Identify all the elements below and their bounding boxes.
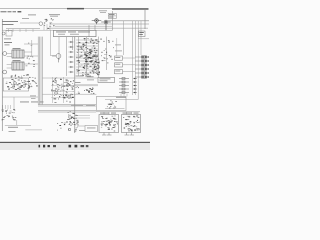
driver column links — [51, 86, 74, 98]
input stubs — [9, 29, 34, 32]
K1 ground stubs — [102, 133, 112, 136]
right text labels — [115, 45, 122, 52]
power unit cluster A3 — [107, 100, 117, 108]
wire pair y84.8 — [74, 85, 98, 86]
transistor ring T1 — [54, 80, 57, 83]
wire drop x74.8 — [74, 37, 76, 133]
bottom-left label — [8, 127, 18, 132]
top-left sub-circuit cluster — [44, 18, 55, 28]
wire drop x112.5 — [112, 11, 114, 30]
connector pin wires — [59, 37, 107, 78]
transistor ring T9 — [23, 85, 26, 88]
wire y126 — [78, 125, 86, 127]
transistor ring T6 — [70, 123, 73, 126]
connector CN1 — [12, 48, 24, 58]
wire drop x89 — [88, 25, 90, 37]
sheet left border — [1, 19, 3, 131]
logic box U2 — [98, 77, 115, 82]
driver columns cluster Q4-Q9 — [51, 77, 74, 102]
transistor ring T7 — [68, 128, 71, 131]
connector strip CN3 — [53, 30, 96, 36]
wire rows y115-118 — [76, 116, 90, 119]
transistor ring T8 — [14, 82, 17, 85]
bottom-left cluster A4 — [2, 109, 17, 120]
wire drop x14 — [13, 97, 15, 109]
header right thick bar — [112, 8, 149, 9]
sheet right border segment — [144, 10, 146, 29]
relay block K1 cluster — [101, 116, 118, 132]
K2 input drops — [127, 112, 132, 115]
wire y30.3 extension — [96, 29, 113, 31]
input wire row — [6, 28, 40, 30]
wire drop x16.8 — [16, 120, 18, 125]
center mid cluster A2 — [76, 86, 95, 94]
wire y125.3 — [5, 124, 31, 126]
left label rows — [4, 39, 11, 46]
connector wires — [7, 40, 38, 68]
IC dark clump U1a — [84, 51, 93, 63]
diode column D1-D7 — [69, 41, 74, 73]
wire y108.5 — [105, 108, 125, 110]
center logic IC cluster U1 — [76, 38, 100, 76]
cluster pin stubs — [44, 24, 50, 30]
wire drop x95 — [94, 25, 96, 30]
transistor ring T4 — [68, 96, 71, 99]
toolbar separator — [0, 142, 150, 143]
U3 input drops — [121, 94, 127, 97]
output chain left parts — [57, 122, 66, 130]
wires-text mid-left — [26, 43, 36, 67]
text rows center-top — [76, 76, 95, 81]
wire bus y20.8 — [108, 20, 149, 22]
transistor ring T5 — [69, 116, 72, 119]
wire y38.8 right — [138, 38, 149, 40]
relay block K2 label — [123, 112, 139, 115]
terminal P1 — [3, 52, 7, 56]
center logic mesh wires — [76, 40, 98, 73]
wire y99.6 — [105, 99, 138, 101]
header filename text — [1, 11, 22, 12]
relay block K2 cluster — [123, 116, 140, 132]
wire y97 — [2, 96, 38, 98]
text near x30 y96 — [30, 96, 36, 99]
wire drop x116.8 — [116, 38, 118, 56]
wire feed y23 — [20, 22, 39, 24]
K1 input drops — [104, 112, 109, 115]
center right cluster U4 — [100, 39, 113, 64]
center label text — [75, 76, 94, 82]
page header rule — [0, 8, 149, 10]
transistor Q2 — [101, 20, 111, 30]
terminal circle P0 — [2, 32, 5, 35]
wire y78 — [42, 77, 98, 79]
vertical bus left-center — [38, 37, 42, 105]
K2 ground stubs — [125, 133, 135, 136]
driver column rails — [53, 77, 64, 103]
wire feed y30.2 — [2, 29, 53, 31]
IC dark clump U1b — [92, 55, 100, 70]
toolbar band — [0, 143, 150, 150]
small note text block — [99, 10, 107, 12]
right small boxes — [115, 56, 136, 74]
relay block K1 box — [99, 115, 119, 133]
connector CN2 — [12, 60, 24, 70]
terminal P2 — [3, 70, 7, 74]
wire y129.9 — [25, 129, 42, 131]
wire y94.2 — [42, 93, 96, 95]
vertical bus right — [123, 21, 141, 100]
wire drop x50.3 — [50, 30, 56, 55]
transistor Q1 — [92, 19, 102, 25]
relay block K1 label — [100, 112, 116, 115]
bottom text under box — [79, 129, 85, 132]
header center dark text segment — [67, 8, 84, 9]
right diode rows D10-D14 — [119, 78, 137, 94]
transistor Q3 — [52, 54, 61, 63]
toolbar icons — [39, 145, 89, 148]
transistor ring T3 — [55, 92, 58, 95]
wire y26.2 — [55, 25, 112, 27]
right resistor-diode rows — [135, 56, 149, 78]
caution note text — [49, 14, 60, 16]
resistor network box RA1 — [139, 31, 146, 37]
bus pair y110.5-112 — [38, 111, 96, 113]
bus pair y104.5-106 — [38, 105, 96, 107]
wire bus y24 — [50, 23, 149, 25]
left driver block box — [3, 78, 28, 91]
wire y111.8 — [96, 111, 140, 113]
left driver cluster A1 — [6, 74, 38, 90]
output chain column — [66, 111, 79, 132]
transistor ring T2 — [67, 84, 70, 87]
revision table — [108, 13, 116, 18]
relay block K2 box — [122, 115, 141, 133]
wire y28.1 — [50, 27, 148, 29]
bottom label box — [85, 126, 98, 132]
bus label text row — [20, 102, 95, 107]
relay G1 coil circle — [39, 22, 43, 26]
bottom-left stubs — [3, 105, 11, 109]
left label text — [4, 41, 12, 44]
sheet note text rows — [3, 15, 37, 25]
label above U3 — [116, 96, 126, 99]
power unit box U3 — [96, 97, 126, 111]
fuse box F1 — [6, 31, 12, 37]
